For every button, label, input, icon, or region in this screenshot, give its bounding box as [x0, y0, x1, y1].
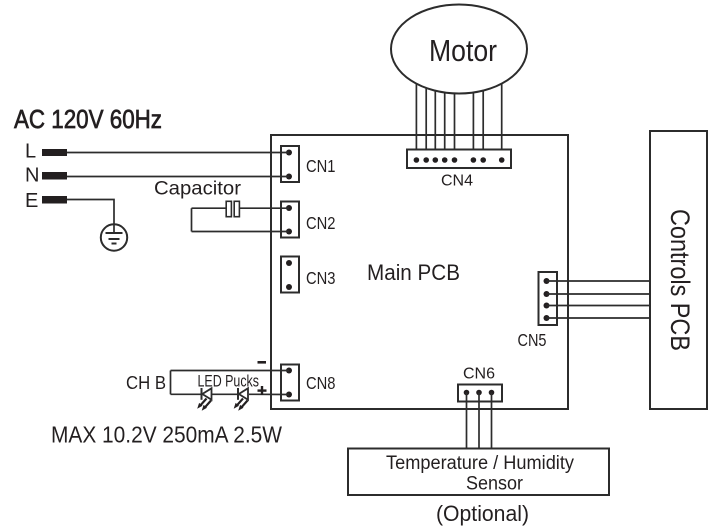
main PCB [271, 135, 568, 409]
wire L to CN1 pin1 [67, 152, 289, 154]
terminal bar L [42, 149, 67, 156]
wire motor to CN4 pin 5 [454, 93, 456, 160]
wire CN6 pin3 to sensor [491, 393, 493, 449]
wire E to ground [67, 200, 114, 234]
wire loop bottom segment 2 [212, 393, 239, 395]
svg-text:AC 120V 60Hz: AC 120V 60Hz [14, 104, 162, 134]
earth ground symbol [101, 224, 127, 250]
connector CN3 [281, 257, 299, 293]
wire CN6 pin2 to sensor [478, 393, 480, 449]
svg-text:Capacitor: Capacitor [154, 179, 242, 200]
wire loop left [170, 371, 172, 395]
wire motor to CN4 pin 8 [501, 83, 503, 160]
wire CN5 pin1 to controls PCB [547, 280, 652, 282]
svg-text:E: E [25, 190, 38, 212]
svg-text:MAX 10.2V 250mA 2.5W: MAX 10.2V 250mA 2.5W [51, 422, 282, 448]
wire N to CN1 pin2 [67, 176, 289, 178]
motor M1 [391, 5, 527, 94]
wire CN5 pin2 to controls PCB [547, 293, 652, 295]
wire motor to CN4 pin 4 [444, 92, 446, 160]
svg-text:CN4: CN4 [441, 173, 473, 190]
terminal bar N [42, 172, 67, 180]
svg-text:CN2: CN2 [306, 213, 336, 233]
svg-text:(Optional): (Optional) [436, 501, 529, 526]
connector CN2 [281, 202, 299, 238]
LED D1 [197, 388, 211, 411]
wire loop bottom segment 3 to CN8 plus [249, 393, 289, 395]
wire motor to CN4 pin 2 [425, 88, 427, 161]
controls PCB [650, 131, 707, 409]
wire motor to CN4 pin 7 [482, 90, 484, 160]
svg-text:N: N [25, 165, 39, 187]
polarity minus [258, 361, 267, 364]
svg-text:Temperature / Humidity: Temperature / Humidity [386, 453, 574, 474]
svg-text:Sensor: Sensor [466, 474, 524, 495]
svg-text:CN3: CN3 [306, 268, 336, 288]
svg-text:Motor: Motor [429, 33, 497, 68]
svg-text:L: L [25, 141, 36, 163]
wire capacitor top to CN2 pin1 [192, 207, 227, 209]
svg-text:CN8: CN8 [306, 373, 336, 393]
connector CN5 [539, 272, 558, 325]
terminal bar E [42, 196, 67, 204]
capacitor C1 [226, 201, 239, 216]
temperature humidity sensor box [348, 449, 609, 496]
wire motor to CN4 pin 6 [472, 92, 474, 160]
wire motor to CN4 pin 3 [434, 90, 436, 160]
connector CN1 [281, 146, 299, 182]
connector CN8 [281, 365, 299, 401]
wire CN6 pin1 to sensor [466, 393, 468, 449]
polarity plus [258, 386, 267, 395]
svg-text:LED Pucks: LED Pucks [198, 372, 260, 391]
wire motor to CN4 pin 1 [415, 83, 417, 160]
wire loop bottom segment 1 [171, 393, 202, 395]
wire CN8 minus loop top [171, 370, 290, 372]
connector CN4 [407, 150, 511, 169]
wire capacitor left leg [191, 208, 193, 231]
svg-text:CH B: CH B [126, 373, 166, 393]
LED D2 [234, 388, 248, 411]
wire CN5 pin3 to controls PCB [547, 305, 652, 307]
svg-text:CN6: CN6 [463, 366, 495, 383]
svg-text:Main PCB: Main PCB [367, 260, 460, 285]
svg-text:CN5: CN5 [518, 330, 547, 350]
connector CN6 [458, 385, 502, 402]
wire capacitor bottom to CN2 pin2 [192, 231, 290, 233]
svg-text:Controls PCB: Controls PCB [665, 209, 695, 351]
wire CN5 pin4 to controls PCB [547, 317, 652, 319]
svg-text:CN1: CN1 [306, 156, 336, 176]
